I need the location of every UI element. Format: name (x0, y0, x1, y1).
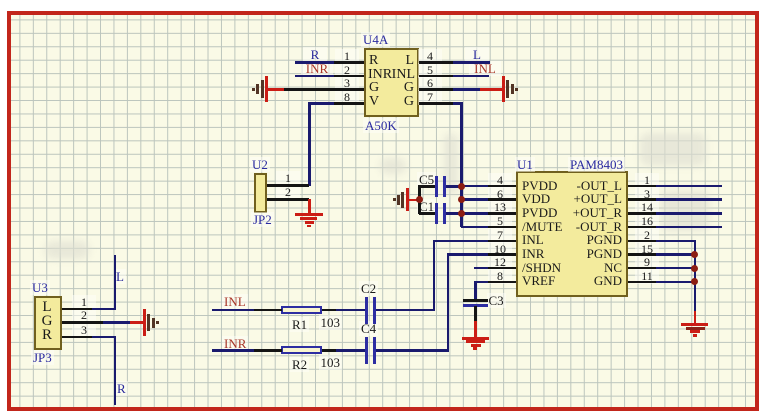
U3 pin 2 stub (62, 321, 103, 324)
U1 pin 11 number (635, 269, 659, 284)
C5 left wire (419, 185, 435, 188)
wire net L (453, 61, 490, 64)
wire +OUT_L (656, 198, 722, 201)
U1 pin 4 number (488, 173, 512, 188)
ground left of C5/C1: short bar (397, 195, 400, 205)
U1 pin 2 number (635, 228, 659, 243)
capacitor C4 left plate (365, 337, 368, 364)
U1 pin 10 stub (488, 253, 516, 256)
ground below U2: bar1 (295, 213, 323, 216)
U3 pin 1 stub (62, 308, 92, 311)
U4A pin 7 number (418, 90, 442, 105)
U3 pin name L (37, 301, 57, 314)
U1 pin 8 wire (474, 281, 488, 284)
junction dot rail D pin15 (691, 251, 698, 258)
U1 pin name INR (522, 247, 544, 260)
capacitor C1 designator (417, 199, 436, 214)
U1 pin name VREF (522, 274, 555, 287)
R1 designator (290, 317, 309, 332)
wire R2 to C4 (336, 349, 365, 352)
U1 pin 14 number (635, 200, 659, 215)
ground right of U3: mid bar (147, 314, 150, 331)
wire R1 to C2 (336, 309, 365, 312)
ground left of U4A: tall bar (265, 76, 268, 102)
junction dot rail A pin4 (458, 183, 465, 190)
resistor R1 right lead (322, 309, 336, 312)
junction dot rail D pin9 (691, 265, 698, 272)
U1 pin name /SHDN (522, 261, 561, 274)
U1 pin 7 stub (488, 240, 516, 243)
ground left of U4A: mid bar (261, 80, 264, 98)
connector U2 body (254, 173, 267, 214)
ground below rail D: tip (693, 334, 697, 337)
red wire to right ground (480, 88, 503, 91)
ground below rail D: bar3 (690, 330, 700, 333)
U4A pin 6 number (418, 76, 442, 91)
U4A pin name G right2 (394, 95, 414, 109)
net R riser vertical (114, 336, 117, 406)
U4A pin 6 stub (419, 88, 453, 91)
U1 pin name PVDD (522, 179, 557, 192)
U1 pin 6 wire from rail A (461, 198, 488, 201)
wire INL from left (212, 309, 255, 312)
U1 pin 8 number (488, 269, 512, 284)
U4A value A50K (363, 118, 399, 133)
C5/C1 left junction vertical (418, 185, 421, 214)
wire to right ground (453, 88, 480, 91)
U4A pin name R (369, 54, 378, 68)
ground right of U3: tip (156, 321, 159, 324)
ground left of U4A: short bar (256, 84, 259, 94)
ground right of U4A: short bar (511, 84, 514, 94)
junction dot C5/C1 (416, 196, 423, 203)
wire INR from left (212, 349, 255, 352)
capacitor C2 left plate (365, 297, 368, 324)
ground left of C5/C1: mid bar (401, 192, 404, 208)
U4A pin name INL (389, 68, 415, 82)
U4A pin 8 number (335, 90, 359, 105)
U1 pin name VDD (522, 192, 550, 205)
wire pin2 red to ground (130, 321, 144, 324)
U1 pin name +OUT_R (552, 206, 622, 219)
net L riser vertical (114, 255, 117, 310)
wire pin8 vertical down to U2 (308, 102, 311, 186)
ground right of U4A: tall bar (502, 76, 505, 102)
C3 lower lead dark (474, 306, 477, 323)
U1 pin 5 number (488, 214, 512, 229)
U1 pin 9 stub (628, 267, 656, 270)
U4A pin 3 number (335, 76, 359, 91)
rail B vertical to U1 INL (433, 240, 436, 311)
U4A pin 8 stub (334, 102, 364, 105)
U1 pin 3 number (635, 187, 659, 202)
capacitor C1 left plate (435, 203, 438, 225)
wire pin11 to rail D (656, 281, 696, 284)
U4A pin 2 stub (334, 75, 364, 78)
rail C vertical to U1 INR (447, 253, 450, 351)
wire pin9 to rail D (656, 267, 696, 270)
U1 pin 13 number (488, 200, 512, 215)
U1 pin 5 stub (488, 226, 516, 229)
rail A vertical (V+ rail) (460, 102, 463, 227)
U1 pin name GND (552, 274, 622, 287)
junction dot rail D pin11 (691, 278, 698, 285)
U3 pin 3 stub (62, 336, 92, 339)
U1 pin 16 stub (628, 226, 656, 229)
resistor R2 body (281, 346, 323, 355)
capacitor C5 right plate (443, 176, 446, 198)
ground right of U3: tall bar (143, 309, 146, 336)
C1 left wire (419, 212, 435, 215)
U1 pin 10 number (488, 242, 512, 257)
red wire from ground to C5/C1 (407, 199, 419, 202)
U3 pin 2 number (72, 308, 96, 323)
ground below rail D: bar2 (686, 327, 705, 330)
U1 pin 11 stub (628, 281, 656, 284)
U4A pin 5 stub (419, 75, 453, 78)
wire pin3 to R riser (92, 336, 116, 339)
wire -OUT_L (656, 185, 722, 188)
connector U3 body (34, 296, 62, 351)
wire +OUT_R (656, 212, 722, 215)
capacitor C5 left plate (435, 176, 438, 198)
U1 pin 6 stub (488, 198, 516, 201)
U1 pin 13 stub (488, 212, 516, 215)
U1 pin name /MUTE (522, 220, 562, 233)
U4A pin 7 stub (419, 102, 453, 105)
U1 pin 4 wire from rail A (461, 185, 488, 188)
U1 pin 7 number (488, 228, 512, 243)
IC U1 body (516, 171, 628, 297)
wire pin7 to rail (453, 102, 462, 105)
capacitor C4 designator (359, 321, 378, 336)
resistor R1 left lead (254, 309, 282, 312)
U1 pin 12 wire stub (474, 267, 488, 270)
U2 pin 2 number (276, 185, 300, 200)
ground right of U3: short bar (152, 318, 155, 328)
U1 pin name +OUT_L (552, 192, 622, 205)
watermark smudge 5 (45, 241, 89, 259)
U1 pin 12 number (488, 255, 512, 270)
wire pin8 horizontal (308, 102, 334, 105)
U1 value PAM8403 (568, 157, 625, 172)
ground below C3: bar1 (462, 337, 489, 340)
U1 pin 13 wire from rail A (461, 212, 488, 215)
net label R (303, 47, 327, 62)
watermark smudge 2 (640, 133, 706, 166)
U1 pin 6 number (488, 187, 512, 202)
U4A pin name G left (369, 81, 379, 95)
U2 pin 1 number (276, 171, 300, 186)
U4A pin name G right (394, 81, 414, 95)
junction dot rail A pin13 (458, 210, 465, 217)
net label L bottom (114, 269, 126, 284)
U4A pin 2 number (335, 63, 359, 78)
U2 pin 2 stub (267, 198, 309, 201)
resistor R2 right lead (322, 349, 336, 352)
rail D red segment (694, 311, 697, 324)
R2 value 103 (319, 355, 343, 370)
wire pin2 navy (103, 321, 130, 324)
ground below U2: tip (307, 225, 311, 228)
ground below C3: bar3 (471, 344, 481, 347)
U3 value JP3 (31, 350, 54, 365)
U1 pin name -OUT_R (552, 220, 622, 233)
U1 pin name -OUT_L (552, 179, 622, 192)
U1 pin 2 stub (628, 240, 656, 243)
op-amp U4A body (364, 48, 419, 117)
U2 designator (250, 157, 270, 172)
U1 pin 12 stub (488, 267, 516, 270)
U4A pin 4 number (418, 49, 442, 64)
U4A designator (361, 32, 390, 47)
capacitor C2 right plate (373, 297, 376, 324)
wire to left ground (267, 88, 284, 91)
ground below rail D: bar1 (681, 323, 708, 326)
U3 designator (30, 280, 50, 295)
net label R bottom (115, 381, 128, 396)
U1 pin 7 wire from rail B corner (433, 240, 489, 243)
U4A pin name V (369, 95, 379, 109)
U1 pin name PGND (552, 233, 622, 246)
U1 designator (515, 157, 535, 172)
watermark smudge 4 (554, 218, 602, 294)
U4A pin name INR (368, 68, 392, 82)
net label INR (bottom) (222, 336, 248, 351)
U3 pin name G (37, 315, 57, 328)
U2 value JP2 (251, 212, 274, 227)
R1 value 103 (319, 315, 343, 330)
net label INR (301, 61, 333, 76)
U1 pin 1 number (635, 173, 659, 188)
U1 pin 15 number (635, 242, 659, 257)
ground right of U4A: mid bar (506, 80, 509, 98)
U3 pin 3 number (72, 323, 96, 338)
wire C2 to rail B (376, 309, 435, 312)
junction dot rail A pin6 (458, 196, 465, 203)
U3 pin 1 number (72, 295, 96, 310)
U3 pin name R (37, 329, 57, 342)
capacitor C1 right plate (443, 203, 446, 225)
net label INL (bottom) (222, 294, 248, 309)
wire C4 to rail C (376, 349, 449, 352)
capacitor C3 top plate (463, 299, 488, 302)
U1 pin 4 stub (488, 185, 516, 188)
net label L (465, 47, 489, 62)
U1 pin name INL (522, 233, 544, 246)
U1 pin 16 number (635, 214, 659, 229)
U1 pin 8 stub (488, 281, 516, 284)
U1 pin name NC (552, 261, 622, 274)
U1 pin 1 stub (628, 185, 656, 188)
U1 pin name PVDD2 (522, 206, 557, 219)
net label INL (469, 61, 501, 76)
ground below U2: bar3 (305, 221, 314, 224)
wire -OUT_R (656, 226, 722, 229)
U1 pin 5 wire from rail A corner (461, 226, 488, 229)
C1 right wire (446, 212, 462, 215)
ground left of U4A: tip (252, 88, 255, 91)
watermark smudge 3 (661, 191, 709, 231)
U4A pin 1 number (335, 49, 359, 64)
C3 lower lead red (474, 321, 477, 337)
U1 pin 3 stub (628, 198, 656, 201)
wire net INL (453, 75, 489, 78)
watermark smudge 1 (444, 133, 458, 195)
rail D vertical (PGND rail) (694, 240, 697, 312)
capacitor C3 designator (487, 293, 506, 308)
capacitor C2 designator (359, 281, 378, 296)
wire pin2 to rail D (656, 240, 696, 243)
U4A pin 4 stub (419, 61, 453, 64)
wire net INR (295, 75, 334, 78)
ground left of C5/C1: tip (393, 198, 396, 201)
U2 pin 1 stub (267, 184, 309, 187)
watermark smudge 6 (380, 158, 406, 174)
resistor R2 left lead (254, 349, 282, 352)
R2 designator (290, 357, 309, 372)
U4A pin 1 stub (334, 61, 364, 64)
U4A pin 3 stub (284, 88, 364, 91)
wire pin15 to rail D (656, 253, 696, 256)
U1 pin name PGND2 (552, 247, 622, 260)
C5 right wire (446, 185, 462, 188)
ground below C3: bar2 (466, 340, 485, 343)
U1 pin 14 stub (628, 212, 656, 215)
wire pin1 to L riser (92, 308, 116, 311)
capacitor C5 designator (417, 172, 436, 187)
ground left of C5/C1: tall bar (406, 188, 409, 211)
U4A pin 5 number (418, 63, 442, 78)
U4A pin name L (394, 54, 414, 68)
U1 pin 9 number (635, 255, 659, 270)
wire net R (295, 61, 334, 64)
ground below C3: tip (473, 347, 477, 350)
VREF corner vertical to C3 (474, 281, 477, 300)
capacitor C4 right plate (373, 337, 376, 364)
U1 pin 10 wire from rail C corner (447, 253, 489, 256)
ground below U2: riser (308, 199, 311, 214)
ground right of U4A: tip (515, 88, 518, 91)
ground below U2: bar2 (300, 217, 317, 220)
capacitor C3 bottom plate (463, 304, 488, 307)
resistor R1 body (281, 306, 323, 315)
U1 pin 15 stub (628, 253, 656, 256)
